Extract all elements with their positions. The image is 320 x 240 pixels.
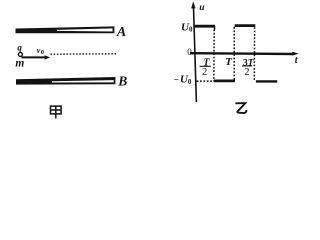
- tick down at end of segment 1: [214, 26, 216, 29]
- t axis (horizontal): [190, 52, 294, 55]
- label 3T/2 fraction: [242, 58, 255, 78]
- dotted horizontal at -U0 level: [197, 80, 214, 82]
- velocity arrow shaft: [22, 56, 46, 58]
- particle (small circle): [18, 52, 22, 56]
- plate B (bottom plate body): [16, 77, 115, 85]
- dotted trajectory line: [51, 53, 118, 55]
- plate B inner white core: [52, 80, 114, 82]
- svg-text:2: 2: [244, 67, 249, 78]
- svg-text:−U0: −U0: [174, 74, 192, 86]
- svg-text:t: t: [295, 55, 299, 66]
- svg-text:A: A: [116, 25, 126, 40]
- waveform top segment 1 (0 to T/2 at +U0): [194, 25, 215, 28]
- label yi (乙) drawn as strokes: [235, 103, 246, 113]
- waveform bottom segment 1 (T/2 to T at -U0): [214, 80, 235, 83]
- svg-text:v0: v0: [37, 46, 44, 56]
- plate A inner white core: [57, 28, 113, 31]
- t axis arrowhead: [292, 52, 298, 56]
- label T/2 fraction: [200, 57, 211, 78]
- label jia (甲) drawn as strokes: [51, 106, 62, 118]
- velocity arrowhead: [45, 55, 51, 59]
- svg-text:2: 2: [202, 67, 207, 78]
- svg-text:0: 0: [187, 47, 192, 57]
- svg-text:u: u: [199, 3, 204, 13]
- dotted vertical at 3T/2: [253, 27, 255, 81]
- svg-text:m: m: [15, 58, 24, 70]
- svg-text:T: T: [225, 56, 233, 68]
- u axis (vertical, slightly slanted): [193, 5, 196, 103]
- svg-text:U0: U0: [181, 21, 193, 33]
- svg-text:q: q: [17, 42, 22, 52]
- svg-text:B: B: [117, 74, 127, 89]
- dotted vertical at T/2: [213, 30, 215, 82]
- plate A (top plate body): [16, 26, 115, 33]
- dotted vertical at T: [233, 27, 235, 81]
- waveform bottom segment 2 (after 3T/2 at -U0): [256, 80, 277, 82]
- waveform top segment 2 (T to 3T/2 at +U0): [235, 24, 256, 27]
- u axis arrowhead: [191, 1, 195, 8]
